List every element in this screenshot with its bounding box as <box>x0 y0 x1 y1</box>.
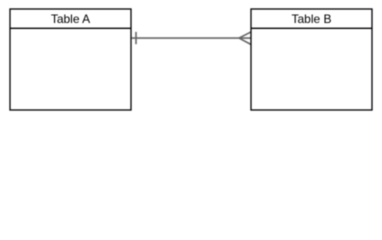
svg-text:Table B: Table B <box>291 12 331 26</box>
svg-text:Table A: Table A <box>51 12 90 26</box>
